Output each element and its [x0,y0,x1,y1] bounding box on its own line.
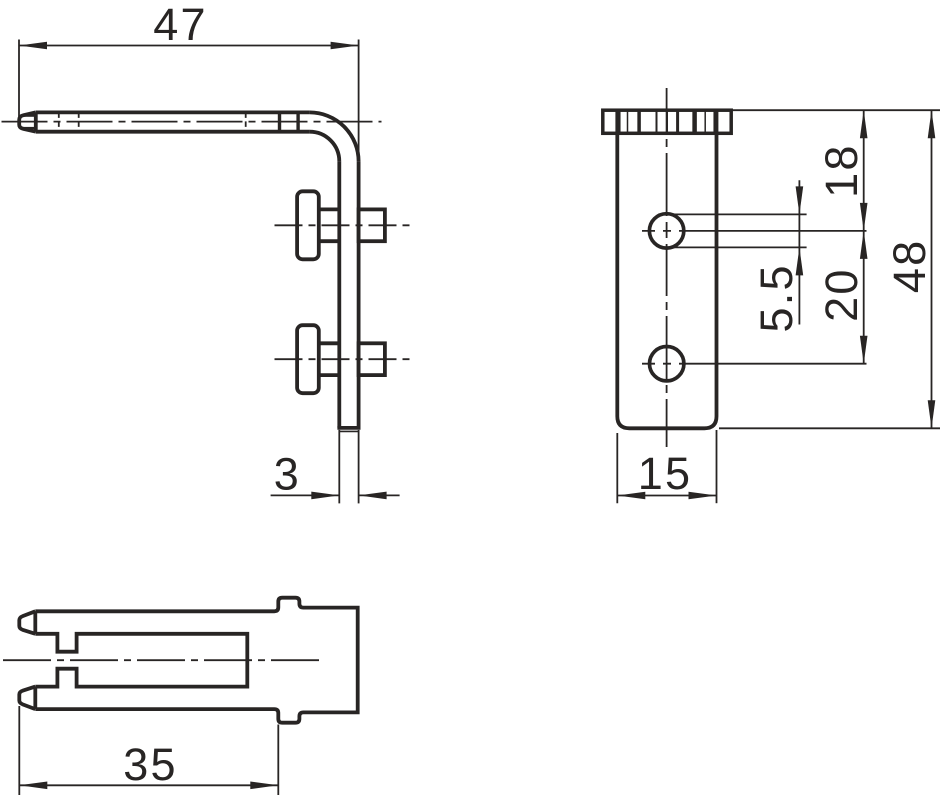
outline with side bumps [35,598,357,723]
screw S1 nut [359,209,385,241]
serration divider 1 [617,110,621,133]
dimension 15 arrow right [689,492,717,500]
leg top edge [36,111,310,115]
vertical leg inner edge [337,161,341,428]
leg bottom edge [36,130,310,134]
svg-text:5.5: 5.5 [751,263,802,332]
dimension 48 top extension line [731,109,940,111]
dimension 18/20 line [863,110,865,364]
dimension 5.5 line [798,180,800,324]
dimension 48 line [931,110,933,428]
top prong chamfer edge [33,611,37,634]
serrated strip outline [603,110,731,133]
svg-text:18: 18 [816,143,867,197]
dimension 3 extension line right [358,430,360,504]
dimension 35 extension line right [277,725,279,795]
slot outline with notches [35,634,247,687]
svg-text:3: 3 [274,449,299,500]
screw S2 centerline [275,358,413,360]
serration divider 6 [676,110,679,133]
hole H1 centerline [642,230,867,232]
svg-text:15: 15 [638,448,692,499]
svg-text:20: 20 [816,267,867,321]
dimension 35 arrow right [250,782,278,790]
dimension 5.5 arrow up [796,247,804,275]
hidden edge (notch) dashed line 1 [58,112,60,131]
vertical leg outer edge [357,161,361,428]
dimension 20 arrow down [860,336,868,364]
screw S1 shank bottom line [319,239,340,243]
screw S1 centerline [275,224,413,226]
bottom prong tip [19,687,35,710]
screw S1 head [297,191,319,259]
dimension 35 line [19,784,278,786]
leg tip inner upper line [22,114,36,116]
visible edge (bump left) [278,112,281,131]
hole H2 centerline [642,363,867,365]
screw S1 shank top line [319,207,340,211]
screw S2 shank top line [319,341,340,345]
dimension 35 arrow left [19,782,47,790]
dimension 3 line left part [271,494,340,496]
dimension 3 extension line left [338,430,340,504]
serration divider 4 [656,110,658,133]
hole tangent line top [660,213,807,215]
dimension 47 extension line right [358,40,360,162]
dimension 3 arrow right [359,492,387,500]
dimension 18 arrow up [860,110,868,138]
dimension 20 arrow up [860,231,868,259]
screw S2 head [297,325,319,393]
dimension 15 line [617,495,716,497]
dimension 3 line right part [359,494,400,496]
dimension 47 dimension line [19,45,359,47]
screw S2 nut [359,343,385,375]
dimension 48 arrow up [928,110,936,138]
top prong tip [19,611,35,634]
serration divider 7 [692,110,697,133]
dimension 18 arrow down [860,203,868,231]
plate vertical centerline [666,88,668,447]
bottom view centerline [3,659,322,661]
visible edge (bump right) [296,112,299,131]
corner outer arc [310,112,359,161]
dimension 15 arrow left [617,492,645,500]
vertical leg bottom thin line [339,430,358,432]
serration divider 2 [627,110,629,133]
dimension 48 arrow down [928,400,936,428]
dimension 5.5 arrow down [796,186,804,214]
serration divider 8 [704,110,706,133]
hidden edge (slot end) dashed line [245,112,247,131]
leg tip inner lower line [22,127,36,129]
hole H1 [649,214,683,248]
horizontal leg centerline [2,121,382,123]
plate outline with rounded bottom [617,110,716,428]
svg-text:48: 48 [884,239,935,293]
dimension 35 extension line left [18,706,20,795]
dimension 47 arrow left [19,42,47,50]
serration divider 5 [666,110,668,133]
hidden edge (notch) dashed line 2 [78,112,80,131]
bottom prong chamfer edge [33,687,37,710]
serration divider 9 [713,110,717,133]
dimension 47 extension line left [18,40,20,122]
screw S2 shank bottom line [319,373,340,377]
dimension 3 arrow left [311,492,339,500]
serration divider 3 [637,110,641,133]
hole tangent line bottom [660,246,807,248]
svg-text:47: 47 [153,0,207,50]
dimension 15 extension line right [716,430,718,503]
corner inner arc [310,132,340,162]
leg tip outline [19,112,36,131]
dimension 48 bottom extension line [719,427,940,429]
leg tip chamfer edge [34,112,38,131]
vertical leg bottom cap [337,426,360,430]
svg-text:35: 35 [123,739,177,790]
dimension 15 extension line left [616,433,618,503]
hole H2 [650,347,684,381]
dimension 47 arrow right [331,42,359,50]
